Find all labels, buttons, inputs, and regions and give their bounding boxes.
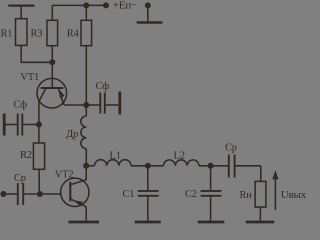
wire VT2 collector up [85,166,87,180]
wire Ep terminal lead [147,5,149,21]
capacitor Cp2 (output) [229,155,261,178]
wire VT1 emitter [64,104,86,106]
chassis bar C2 [198,221,225,224]
capacitor Cp1 (input) [18,183,40,205]
svg-text:Др: Др [66,129,78,140]
input terminal wire [3,193,17,195]
chassis bar C1 [135,221,161,224]
resistor R3 [47,20,58,45]
wire R4 top lead [85,5,87,20]
chassis bar VT2 emitter [69,221,100,224]
choke Dr [81,105,86,166]
wire R1 top lead [20,6,22,19]
capacitor C1 [138,166,159,221]
wire VT1 collector down [38,102,40,143]
svg-text:Rн: Rн [240,190,253,201]
node Cp1/R2/base [37,191,43,197]
capacitor Cf1 (left) [6,114,39,136]
resistor R1 [16,19,28,46]
svg-text:Сф: Сф [14,100,28,111]
svg-text:C1: C1 [123,189,135,200]
svg-text:R2: R2 [20,150,32,161]
node L2/C2/Cp2 [208,163,214,169]
node collector/Cf1/R2 [36,122,42,128]
wire Cp2 to Rn [260,166,262,182]
wire R4 bottom to emitter node [85,46,87,105]
wire VT2 emitter down [85,207,87,221]
svg-text:L2: L2 [174,151,185,162]
arrow Uvyh [272,170,278,210]
wire to VT2 base [40,193,61,195]
wire R3 top lead [51,5,53,20]
inductor L2 [164,160,199,166]
node Ep minus terminal [145,2,151,8]
node L1/C1/L2 [145,163,151,169]
node emitter/R4/Cf2/Dr [83,102,89,108]
svg-text:Uвых: Uвых [281,189,306,201]
svg-text:R4: R4 [67,28,80,39]
wire top rail [52,4,106,6]
wire Rn bottom lead [259,207,261,221]
chassis bar right of Cf2 [118,92,121,115]
node Dr/collector/L1 [83,163,89,169]
wire L1 to C1 node [131,165,163,167]
resistor Rn [255,181,266,207]
transistor VT2 [61,178,89,207]
svg-text:C2: C2 [185,189,197,200]
node rail end terminal [103,2,109,8]
wire L2 to C2 node to Cp2 [199,165,229,167]
svg-text:+Еп−: +Еп− [113,0,137,12]
chassis bar top-right [137,21,163,24]
wire R2 bottom lead [38,169,40,194]
node input terminal [0,191,6,197]
wire R3 bottom to VT1 base [51,46,53,88]
wire R1 bottom to junction [21,45,52,62]
capacitor Cf2 (top) [86,93,118,114]
node rail/R4 [83,2,89,8]
chassis bar left (Cf1) [3,114,6,136]
svg-text:R1: R1 [1,28,13,39]
chassis bar Rn [246,221,275,224]
svg-text:VT2: VT2 [55,170,74,181]
svg-text:Ср: Ср [225,143,237,154]
resistor R4 [81,20,92,45]
svg-text:Сф: Сф [96,81,110,92]
resistor R2 [33,143,44,169]
inductor L1 [95,160,132,166]
chassis bar top-left [8,4,34,6]
transistor VT1 [37,78,67,108]
wire main line to L1 [86,165,94,167]
svg-text:VT1: VT1 [20,72,39,83]
capacitor C2 [201,166,222,221]
svg-text:L1: L1 [110,151,121,162]
node R1/R3/base [49,59,55,65]
svg-text:R3: R3 [31,28,43,39]
svg-text:Ср: Ср [14,173,26,184]
